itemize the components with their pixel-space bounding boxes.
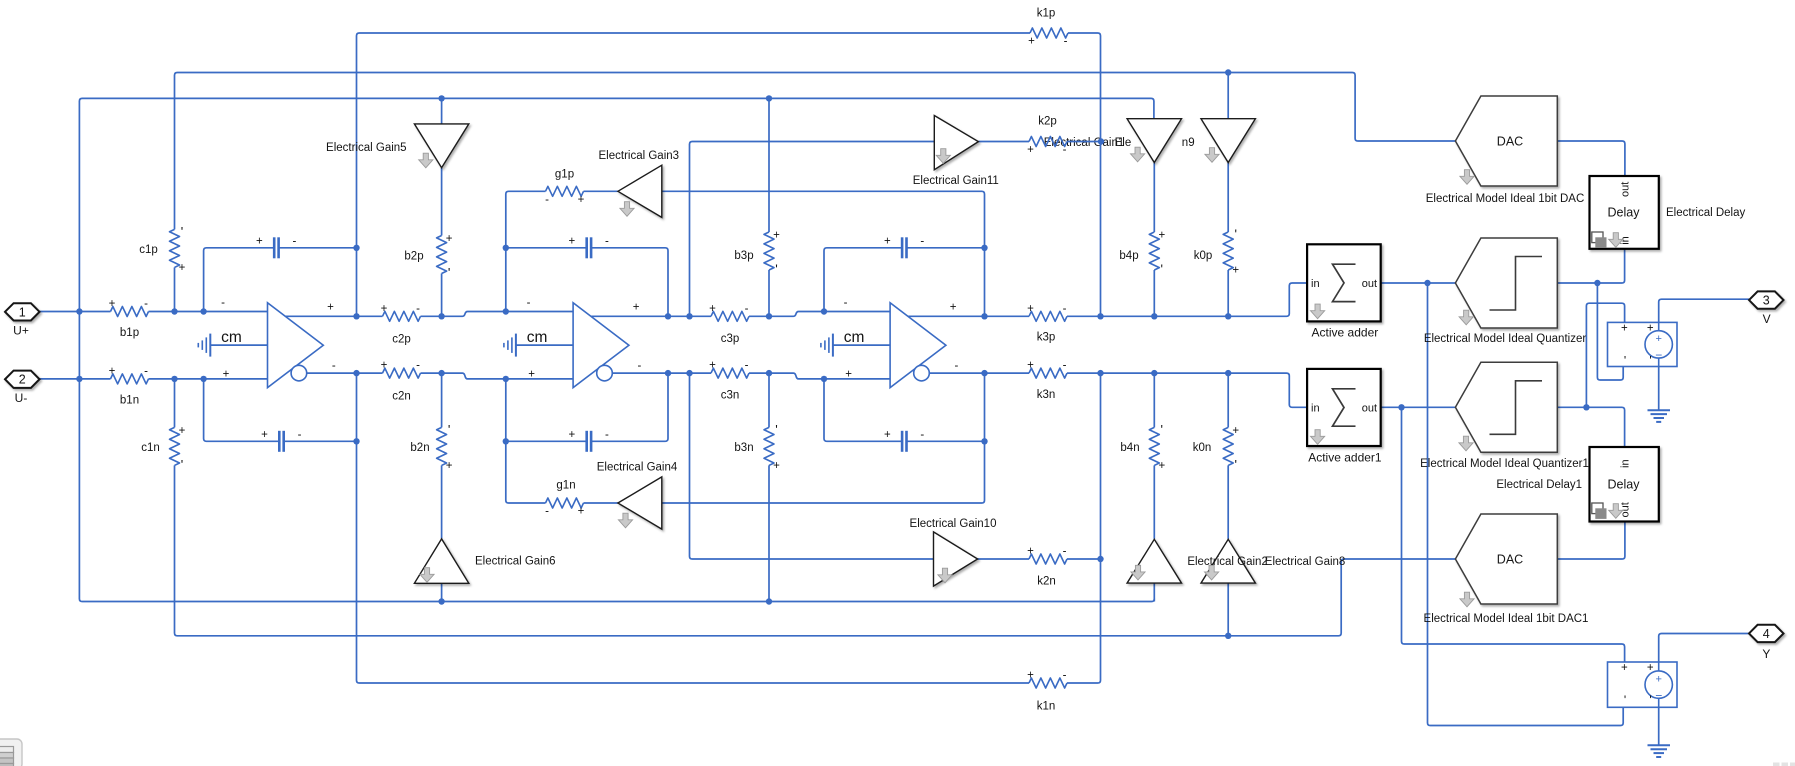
arrow in Electrical Gain4 xyxy=(618,513,632,528)
gain Electrical Gain9 xyxy=(1201,119,1255,163)
svg-text:-: - xyxy=(527,297,531,309)
svg-text:Electrical Gain1: Electrical Gain1 xyxy=(1044,137,1125,149)
wire Electrical Gain6 base to U- bus xyxy=(441,583,443,601)
wire U- rail down to c1n xyxy=(174,379,176,428)
svg-text:V: V xyxy=(1763,312,1771,326)
svg-text:Active adder: Active adder xyxy=(1312,326,1379,340)
voltage source block for Y output xyxy=(1608,662,1678,707)
node U- cap tap xyxy=(200,376,206,382)
svg-text:+: + xyxy=(1232,425,1239,437)
svg-text:Electrical Model Ideal 1bit DA: Electrical Model Ideal 1bit DAC1 xyxy=(1424,613,1589,625)
svg-text:-: - xyxy=(605,236,609,248)
svg-text:g1n: g1n xyxy=(556,480,575,492)
node c3p/b3p xyxy=(766,313,772,319)
svg-text:Electrical Delay: Electrical Delay xyxy=(1666,207,1745,219)
svg-text:-: - xyxy=(605,429,609,441)
corner badge (model browser icon) xyxy=(0,739,22,766)
svg-text:b2p: b2p xyxy=(404,251,423,263)
port 2 (U-) xyxy=(5,371,40,388)
resistor b3p xyxy=(764,232,774,270)
svg-text:3: 3 xyxy=(1763,293,1770,307)
wire cm stub op-amp U2 xyxy=(516,344,573,346)
wire k0p to k3p line xyxy=(1227,270,1229,316)
arrow in DAC xyxy=(1460,170,1474,185)
capacitor C3n xyxy=(901,431,908,452)
node op2 -in g1p xyxy=(503,308,509,314)
wire b4n to Electrical Gain2 apex xyxy=(1153,465,1155,539)
svg-text:-: - xyxy=(844,297,848,309)
svg-text:Electrical Model Ideal Quantiz: Electrical Model Ideal Quantizer xyxy=(1424,333,1587,345)
wire stage1 feedback capacitor C1n bottom plate xyxy=(204,379,357,441)
svg-text:-: - xyxy=(332,360,336,372)
wire DAC feedback bus tap down to Electrical Gain9 xyxy=(1227,73,1229,119)
node b4p on k3p line xyxy=(1151,313,1157,319)
capacitor C1n xyxy=(278,431,285,452)
node U- at x=79 xyxy=(76,376,82,382)
svg-text:': ' xyxy=(1161,422,1163,437)
svg-text:-: - xyxy=(292,236,296,248)
svg-text:+: + xyxy=(709,360,716,372)
wire Electrical Gain1 output to b4p xyxy=(1153,163,1155,233)
wire U- input rail from port 2 to op-amp U1 plus input xyxy=(40,378,268,380)
svg-text:': ' xyxy=(1649,353,1651,367)
wire Y source to ground xyxy=(1658,707,1660,745)
svg-text:+: + xyxy=(179,262,186,274)
node U- c1n tap xyxy=(171,376,177,382)
wire cm stub op-amp U3 xyxy=(833,344,890,346)
svg-text:+: + xyxy=(884,236,891,248)
block Electrical Model Ideal 1bit DAC1 xyxy=(1455,514,1557,604)
wire Active adder output to Electrical Model Ideal Quantizer xyxy=(1381,282,1456,284)
arrow in Electrical Gain3 xyxy=(620,202,634,217)
svg-text:out: out xyxy=(1362,278,1377,290)
wire stage2 feedback capacitor C2p plate line xyxy=(506,248,668,316)
node k0n on k3n line xyxy=(1225,370,1231,376)
wire stage3 feedback capacitor C3n plate line xyxy=(824,379,985,441)
svg-text:-: - xyxy=(144,365,148,377)
node U+ at x=79 xyxy=(76,308,82,314)
svg-text:': ' xyxy=(1649,693,1651,707)
svg-text:Active adder1: Active adder1 xyxy=(1308,450,1382,464)
resistor k0p xyxy=(1223,232,1233,270)
svg-text:in: in xyxy=(1311,402,1320,414)
block Electrical Model Ideal 1bit DAC xyxy=(1455,96,1557,186)
block Active adder1 xyxy=(1307,369,1381,446)
svg-text:+: + xyxy=(569,429,576,441)
svg-text:in: in xyxy=(1311,278,1320,290)
capacitor C1p xyxy=(273,237,280,258)
wire Electrical Gain10 output through k2n to feedback bus xyxy=(978,558,1101,560)
svg-text:out: out xyxy=(1362,402,1377,414)
svg-text:in: in xyxy=(1620,459,1632,468)
svg-text:+: + xyxy=(109,298,116,310)
svg-text:+: + xyxy=(381,303,388,315)
ground cm reference for op-amp U2 xyxy=(504,334,516,357)
svg-text:2: 2 xyxy=(19,373,26,387)
wire feedback bus x=1100 upper (k1p/k2p/k3p) xyxy=(1068,33,1101,316)
arrow in Electrical Gain2 xyxy=(1131,565,1145,580)
resistor b1p xyxy=(111,307,149,317)
wire Electrical Gain3 output through g1p down to op-amp U2 - input node xyxy=(506,191,618,311)
svg-text:-: - xyxy=(954,360,958,372)
svg-text:b1n: b1n xyxy=(120,394,139,406)
resistor g1p xyxy=(546,186,584,196)
wire c3n line down to b3n xyxy=(768,373,770,427)
wire U+ input rail from port 1 to op-amp U1 minus input xyxy=(40,311,268,313)
node C3p right xyxy=(981,245,987,251)
svg-text:+: + xyxy=(1621,323,1628,335)
svg-text:-: - xyxy=(745,360,749,372)
wire Electrical Delay1 output to DAC1 input xyxy=(1557,522,1625,560)
wire stage3 feedback capacitor C3p plate line xyxy=(824,248,985,312)
op-amp U2 xyxy=(573,303,629,388)
svg-text:-: - xyxy=(745,303,749,315)
wire op outputs node to Electrical Gain10 input xyxy=(690,373,934,559)
svg-text:k0n: k0n xyxy=(1193,442,1212,454)
wire Y source to port 4 xyxy=(1659,634,1749,663)
node k3n on bus xyxy=(1097,370,1103,376)
wire Electrical Delay output to DAC input xyxy=(1557,141,1625,176)
arrow in Electrical Gain6 xyxy=(420,568,434,583)
node gain10 tap n xyxy=(686,370,692,376)
node gain11 tap p xyxy=(686,313,692,319)
block Electrical Delay xyxy=(1590,176,1659,249)
svg-text:+: + xyxy=(1232,265,1239,277)
ground below Y source xyxy=(1648,745,1671,757)
svg-text:b3n: b3n xyxy=(734,442,753,454)
wire Electrical Gain5 output to b2p xyxy=(441,168,443,236)
wire k3n line down to b4n xyxy=(1153,373,1155,427)
svg-text:+: + xyxy=(773,460,780,472)
svg-text:k1p: k1p xyxy=(1037,8,1056,20)
wire U+ bus down to b3p xyxy=(768,98,770,232)
svg-text:': ' xyxy=(1234,457,1236,472)
svg-text:Electrical Gain6: Electrical Gain6 xyxy=(475,556,556,568)
op-amp U1 xyxy=(268,303,324,388)
svg-text:c3p: c3p xyxy=(721,333,740,345)
svg-text:-: - xyxy=(1063,360,1067,372)
svg-text:+: + xyxy=(446,233,453,245)
svg-text:+: + xyxy=(1028,36,1035,48)
wire Electrical Gain8 base to DAC1 feedback bus xyxy=(1227,583,1229,636)
svg-text:c3n: c3n xyxy=(721,390,740,402)
wire c2n line down to b2n xyxy=(441,373,443,427)
svg-text:+: + xyxy=(1655,673,1661,685)
resistor c2n xyxy=(383,368,421,378)
look-under-mask arrow of block Electrical Delay xyxy=(1609,233,1623,248)
node k2n on bus xyxy=(1097,556,1103,562)
resistor k3p xyxy=(1029,311,1067,321)
svg-text:-: - xyxy=(920,429,924,441)
svg-text:-: - xyxy=(545,506,549,518)
resistor k1n xyxy=(1029,678,1067,688)
svg-text:+: + xyxy=(223,369,230,381)
wire b3p to c3p output line xyxy=(768,270,770,316)
svg-text:k3p: k3p xyxy=(1037,332,1056,344)
svg-text:': ' xyxy=(1624,353,1626,367)
svg-text:+: + xyxy=(773,230,780,242)
wire quantizer1 output tap up to V source + terminal xyxy=(1586,303,1624,407)
wire quantizer output to Electrical Delay input xyxy=(1557,249,1624,283)
svg-text:+: + xyxy=(1027,546,1034,558)
ground cm reference for op-amp U3 xyxy=(821,334,833,357)
wire Electrical Gain4 output through g1n up to op-amp U2 + input node xyxy=(506,379,618,503)
wire k3n line down to k0n xyxy=(1227,373,1229,427)
svg-text:+: + xyxy=(884,429,891,441)
node c3n/b3n xyxy=(766,370,772,376)
svg-text:+: + xyxy=(578,506,585,518)
svg-text:-: - xyxy=(1063,144,1067,156)
wire V source to port 3 xyxy=(1659,299,1749,322)
svg-text:+: + xyxy=(528,369,535,381)
gain Electrical Gain5 xyxy=(414,124,468,168)
wire stage3 cap node to Electrical Gain3 input xyxy=(662,191,985,316)
svg-text:Delay: Delay xyxy=(1608,478,1641,492)
wire k0n to Electrical Gain8 apex xyxy=(1227,465,1229,539)
node C1n right xyxy=(353,438,359,444)
svg-text:-: - xyxy=(221,297,225,309)
svg-text:cm: cm xyxy=(527,329,548,346)
svg-text:Electrical Model Ideal Quantiz: Electrical Model Ideal Quantizer1 xyxy=(1420,458,1589,470)
svg-text:-: - xyxy=(545,194,549,206)
wire k1p feedback line y=33 and x=356.5 column xyxy=(357,33,1031,316)
wire Active adder1 output to Electrical Model Ideal Quantizer1 xyxy=(1381,406,1456,408)
polarity signs xyxy=(109,36,1654,708)
svg-text:-: - xyxy=(1064,36,1068,48)
svg-text:−: − xyxy=(1655,348,1662,362)
wire b2n to Electrical Gain6 xyxy=(441,465,443,539)
wire Electrical Gain11 output through k2p to feedback bus xyxy=(978,141,1101,143)
node b3n on U- bus xyxy=(766,598,772,604)
wire Electrical Gain9 output to k0p xyxy=(1227,163,1229,233)
wire stage3 cap node to Electrical Gain4 input xyxy=(662,373,985,503)
block Electrical Delay1 xyxy=(1590,447,1659,522)
port 3 (V) xyxy=(1749,291,1784,308)
svg-text:-: - xyxy=(1063,670,1067,682)
svg-text:cm: cm xyxy=(844,329,865,346)
svg-text:+: + xyxy=(1027,303,1034,315)
svg-text:+: + xyxy=(1647,662,1654,674)
gain Electrical Gain3 xyxy=(618,165,662,217)
svg-text:Electrical Gain11: Electrical Gain11 xyxy=(913,175,999,187)
wire x=356.5 column lower part to k1n line y=683 xyxy=(357,373,1030,683)
svg-text:k2p: k2p xyxy=(1038,116,1057,128)
wire stage2 feedback capacitor C2n plate line xyxy=(506,373,668,441)
block Electrical Model Ideal Quantizer xyxy=(1455,238,1557,328)
wire quantizer output tap down to V source - terminal xyxy=(1597,283,1623,380)
svg-text:Delay: Delay xyxy=(1608,206,1641,220)
gain Electrical Gain2 xyxy=(1127,539,1181,583)
svg-text:n9: n9 xyxy=(1182,137,1195,149)
node quantizer out tap to V- xyxy=(1594,280,1600,286)
resistor b4n xyxy=(1149,427,1159,465)
svg-text:1: 1 xyxy=(19,305,26,319)
svg-text:k1n: k1n xyxy=(1037,701,1056,713)
wire op-amp U1 - output rail with c2n to op-amp U2 + input xyxy=(307,373,573,379)
node U+ cap tap xyxy=(200,308,206,314)
svg-text:U+: U+ xyxy=(13,324,29,338)
wire Electrical Gain5 input from U+ bus xyxy=(441,98,443,124)
arrow in Active adder xyxy=(1311,304,1325,319)
svg-text:g1p: g1p xyxy=(555,169,574,181)
node U+ c1p tap xyxy=(171,308,177,314)
node k0n on DAC1 bus xyxy=(1225,633,1231,639)
svg-text:+: + xyxy=(109,365,116,377)
resistor c2p xyxy=(383,311,421,321)
svg-text:−: − xyxy=(1655,688,1662,702)
wire op-amp U1 + output rail with c2p to op-amp U2 - input xyxy=(285,312,573,317)
svg-text:Electrical Gain2: Electrical Gain2 xyxy=(1187,556,1268,568)
node op1+out x=356 xyxy=(353,313,359,319)
svg-text:Electrical Gain5: Electrical Gain5 xyxy=(326,142,407,154)
node C3n left xyxy=(821,376,827,382)
svg-text:': ' xyxy=(775,422,777,437)
arrow in Electrical Gain8 xyxy=(1205,565,1219,580)
resistor k0n xyxy=(1223,427,1233,465)
resistor k3n xyxy=(1029,368,1067,378)
op-amp U3 xyxy=(890,303,946,388)
svg-text:c1n: c1n xyxy=(141,442,160,454)
port 1 (U+) xyxy=(5,303,40,320)
svg-text:+: + xyxy=(1027,144,1034,156)
svg-text:b4p: b4p xyxy=(1119,250,1138,262)
svg-text:+: + xyxy=(633,302,640,314)
svg-text:+: + xyxy=(1158,230,1165,242)
wire op-amp U2 + output rail with c3p to op-amp U3 - input xyxy=(591,312,890,317)
wire c1p bottom to U+ rail xyxy=(174,267,176,311)
gain Electrical Gain1 xyxy=(1127,119,1181,163)
look-under-mask arrow of block Electrical Delay1 xyxy=(1609,504,1623,519)
resistor c1n xyxy=(170,427,180,465)
ground below V source xyxy=(1648,410,1671,422)
wire U+ bus: up from port1 line, along y=98.4 to Electrical Gain1, down via b4p; and U- bus along y=601.5 to Electrical Gain2 xyxy=(79,98,1154,601)
svg-text:-: - xyxy=(416,303,420,315)
arrow in Electrical Gain9 xyxy=(1205,148,1219,163)
wire op-amp U2 - output rail with c3n to op-amp U3 + input xyxy=(612,373,890,379)
node C2n right on n line xyxy=(665,370,671,376)
arrow in Electrical Gain10 xyxy=(938,568,952,583)
svg-text:': ' xyxy=(448,422,450,437)
svg-text:b2n: b2n xyxy=(410,442,429,454)
resistor k2n xyxy=(1029,554,1067,564)
svg-text:+: + xyxy=(327,302,334,314)
node adder out tap to Y- xyxy=(1424,280,1430,286)
node gain9 tap on DAC bus xyxy=(1225,69,1231,75)
ground cm reference for op-amp U1 xyxy=(198,334,210,357)
svg-text:-: - xyxy=(637,360,641,372)
wire V source to ground xyxy=(1658,367,1660,411)
node C1p right xyxy=(353,245,359,251)
svg-text:k0p: k0p xyxy=(1194,250,1213,262)
svg-text:': ' xyxy=(775,262,777,277)
wire b4p to k3p line xyxy=(1153,270,1155,316)
resistor c3p xyxy=(711,311,749,321)
svg-text:+: + xyxy=(709,303,716,315)
node C3p left xyxy=(821,308,827,314)
capacitor C2p xyxy=(585,237,592,258)
node b3p on U+ bus xyxy=(766,95,772,101)
wire quantizer1 output to Electrical Delay1 input xyxy=(1557,407,1624,447)
svg-text:cm: cm xyxy=(221,329,242,346)
svg-text:+: + xyxy=(1621,662,1628,674)
svg-text:-: - xyxy=(144,298,148,310)
node C3n right xyxy=(981,438,987,444)
svg-text:+: + xyxy=(578,194,585,206)
gain Electrical Gain6 xyxy=(414,539,468,583)
svg-text:+: + xyxy=(1027,670,1034,682)
wire op-amp U3 - output k3n line to Active adder1 input xyxy=(929,373,1307,407)
svg-text:DAC: DAC xyxy=(1497,553,1523,567)
resistor g1n xyxy=(546,498,584,508)
svg-text:-: - xyxy=(920,236,924,248)
node C2n left xyxy=(503,438,509,444)
wire U- bus riser into Electrical Gain2 base xyxy=(1153,583,1155,601)
gain Electrical Gain4 xyxy=(618,477,662,529)
resistor c1p xyxy=(170,229,180,267)
node k0p on k3p line xyxy=(1225,313,1231,319)
block Electrical Model Ideal Quantizer1 xyxy=(1455,362,1557,452)
gain Electrical Gain10 xyxy=(934,532,978,586)
svg-text:Electrical Gain10: Electrical Gain10 xyxy=(910,518,997,530)
resistor k1p xyxy=(1030,28,1068,38)
wire Active adder output tap down to Y source - terminal xyxy=(1428,283,1624,726)
resistor b2n xyxy=(437,427,447,465)
svg-text:+: + xyxy=(845,369,852,381)
wire op outputs node to Electrical Gain11 input xyxy=(690,142,935,317)
svg-text:Electrical Delay1: Electrical Delay1 xyxy=(1496,479,1582,491)
node C2p left xyxy=(503,245,509,251)
svg-text:Electrical Gain4: Electrical Gain4 xyxy=(597,462,678,474)
svg-text:+: + xyxy=(1647,323,1654,335)
svg-text:U-: U- xyxy=(15,391,28,405)
resistor b3n xyxy=(764,427,774,465)
wire b3n to U- bus xyxy=(768,465,770,601)
svg-text:c2n: c2n xyxy=(392,391,411,403)
arrow in Active adder1 xyxy=(1311,430,1325,445)
node k2p on bus xyxy=(1098,138,1104,144)
node b2n on U- bus xyxy=(438,598,444,604)
node adder1 out tap to Y+ xyxy=(1398,404,1404,410)
wire feedback bus x=1100 lower (k3n/k2n/k1n) xyxy=(1067,373,1101,683)
node op2 +in g1n xyxy=(503,376,509,382)
resistor b4p xyxy=(1149,232,1159,270)
resistor c3n xyxy=(711,368,749,378)
gain Electrical Gain11 xyxy=(934,116,978,170)
node gain5 tap on U+ bus xyxy=(438,95,444,101)
node k3p on bus xyxy=(1097,313,1103,319)
node C2p right on p line xyxy=(665,313,671,319)
svg-text:': ' xyxy=(448,265,450,280)
svg-text:-: - xyxy=(298,429,302,441)
svg-text:k2n: k2n xyxy=(1037,576,1056,588)
svg-text:+: + xyxy=(569,236,576,248)
svg-text:+: + xyxy=(446,460,453,472)
svg-text:c1p: c1p xyxy=(139,244,158,256)
node op1-out x=356 xyxy=(353,370,359,376)
wire b2p to c2p output line xyxy=(441,274,443,317)
svg-text:Electrical Gain3: Electrical Gain3 xyxy=(599,150,680,162)
svg-text:+: + xyxy=(1655,333,1661,345)
svg-text:k3n: k3n xyxy=(1037,389,1056,401)
arrow in quantizer1 xyxy=(1459,436,1473,451)
resistor k2p xyxy=(1029,137,1067,147)
wire stage1 feedback capacitor C1p top plate xyxy=(204,248,357,312)
svg-text:b4n: b4n xyxy=(1120,442,1139,454)
svg-text:': ' xyxy=(181,224,183,239)
wire DAC output feedback: from DAC via y=72.5 bus down c1p column xyxy=(175,73,1456,230)
wire op-amp U3 + output k3p line to Active adder input xyxy=(908,283,1307,316)
arrow in Electrical Gain11 xyxy=(936,149,950,164)
